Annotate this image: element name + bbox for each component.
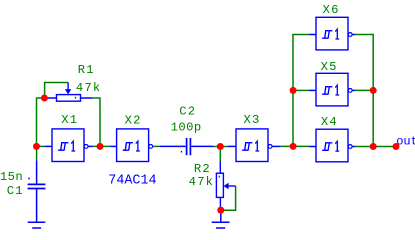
svg-text:C2: C2 <box>179 104 196 118</box>
ground below C1 <box>28 222 46 228</box>
wire R2 wiper loop <box>221 186 236 210</box>
inverter X1 input lead <box>44 145 52 147</box>
inverter X2 input lead <box>110 145 116 147</box>
wire X3 output to X4 input <box>280 145 309 147</box>
node X4 output column <box>370 143 377 150</box>
svg-text:X4: X4 <box>321 115 338 129</box>
potentiometer R1 inner mark <box>75 97 76 99</box>
node X1 input <box>33 143 40 150</box>
wire node to R2 top <box>219 147 221 162</box>
wire X1 output to X2 <box>93 145 111 147</box>
svg-text:15n: 15n <box>0 170 23 184</box>
svg-text:R2: R2 <box>194 162 211 176</box>
wire X2 output to C2 <box>152 145 160 147</box>
inverter X6 output lead <box>352 34 355 36</box>
Schmitt inverter X1 box <box>52 129 88 162</box>
potentiometer R2 inner mark <box>219 176 220 178</box>
capacitor C2 label mark <box>181 151 182 153</box>
wire main row X1 input <box>37 145 45 147</box>
svg-text:47k: 47k <box>189 175 215 189</box>
R2 bottom lead and ground <box>212 210 230 228</box>
wire X5 input <box>293 89 309 91</box>
wire X5 output <box>354 89 373 91</box>
wire left column R1 node to X1 input node <box>37 98 45 146</box>
potentiometer R1 body <box>44 82 92 101</box>
svg-text:100p: 100p <box>171 121 202 135</box>
wire X4 output to out terminal <box>354 146 396 148</box>
potentiometer R1 wiper arrow <box>65 89 71 94</box>
wire X6 output down right column <box>354 35 373 147</box>
svg-text:R1: R1 <box>78 63 95 77</box>
svg-text:X6: X6 <box>323 3 340 17</box>
node X1 output <box>97 143 104 150</box>
node X5 output <box>370 87 377 94</box>
node X3 output column <box>290 143 297 150</box>
wire left column down to C1 <box>36 146 38 160</box>
potentiometer R2 wiper arrow <box>224 183 229 189</box>
inverter X1 output lead <box>88 145 93 147</box>
Schmitt inverter X4 box <box>316 129 352 162</box>
node out terminal <box>393 143 400 150</box>
capacitor C1 label mark <box>28 178 29 180</box>
Schmitt inverter X2 box <box>117 129 153 162</box>
inverter X4 input lead <box>309 146 316 148</box>
inverter X3 output lead <box>272 145 280 147</box>
Schmitt inverter X3 box <box>236 129 272 162</box>
svg-text:out: out <box>396 135 415 149</box>
inverter X4 output lead <box>352 146 355 148</box>
inverter X3 input lead <box>228 145 236 147</box>
Schmitt inverter X5 box <box>316 73 352 106</box>
node R2 bottom <box>217 207 224 214</box>
wire R1 wiper loop <box>45 83 68 99</box>
inverter X5 output lead <box>352 89 355 91</box>
wire R1 right lead to X1 output node <box>93 98 101 146</box>
svg-text:47k: 47k <box>76 81 102 95</box>
wire right left-column up to X6 input <box>293 35 309 147</box>
Schmitt inverter X6 box <box>316 17 352 50</box>
capacitor C1 <box>28 160 46 221</box>
svg-text:X1: X1 <box>61 113 78 127</box>
potentiometer R2 body <box>216 162 235 211</box>
svg-text:X2: X2 <box>125 114 142 128</box>
svg-text:X5: X5 <box>321 60 338 74</box>
wire C2 to X3 input <box>213 146 228 148</box>
node R1 left <box>41 95 48 102</box>
node C2/X3/R2 <box>217 143 224 150</box>
inverter X6 input lead <box>309 34 316 36</box>
node X5 input <box>290 87 297 94</box>
svg-text:74AC14: 74AC14 <box>108 174 156 189</box>
inverter X5 input lead <box>309 89 316 91</box>
svg-text:C1: C1 <box>7 184 24 198</box>
capacitor C2 <box>160 138 213 155</box>
svg-text:X3: X3 <box>244 113 261 127</box>
